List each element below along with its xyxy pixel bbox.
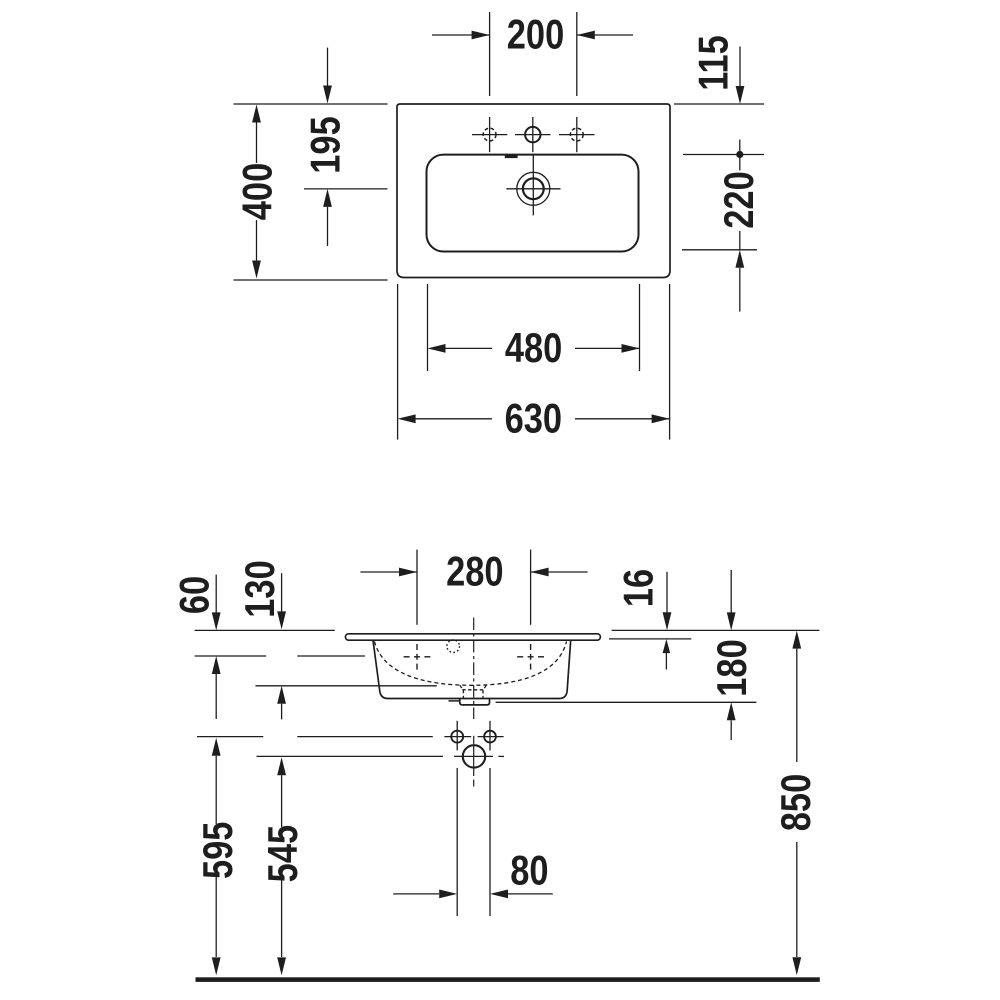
left bolt hole: [451, 731, 463, 743]
dim 200 left extension line: [489, 12, 491, 96]
trap reference line left: [257, 755, 444, 757]
drain recess hidden right: [483, 685, 486, 698]
drain boss: [460, 699, 490, 705]
drain crosshair h: [506, 188, 560, 190]
rim underside reference line right: [609, 638, 691, 640]
dim 115 arrowhead: [736, 86, 745, 104]
dim 220 arrowhead: [735, 250, 744, 268]
svg-text:595: 595: [195, 822, 242, 879]
dim 220 bottom reference line: [682, 249, 757, 251]
drain recess hidden left: [460, 685, 464, 698]
dim 60 bottom arrowhead: [212, 656, 221, 674]
dim 220 line lower stub: [739, 231, 741, 250]
centerline upper: [473, 618, 475, 720]
dim 200 right extension line: [576, 12, 578, 96]
dim 115 arrow line: [739, 47, 741, 87]
dim 630 right extension line: [669, 284, 671, 440]
dim 280 left arrow line: [360, 571, 417, 573]
dim 16 bottom arrowhead: [663, 639, 671, 653]
dim 180 bottom arrowhead: [727, 702, 736, 720]
faucet line reference left a: [195, 655, 267, 657]
rear edge extension line right: [674, 103, 764, 105]
dim 16 bottom arrow tail: [665, 653, 667, 670]
drain boss lip: [449, 700, 461, 702]
dim 545 line upper: [281, 775, 283, 827]
washbasin body (elevation): [373, 640, 571, 698]
svg-text:115: 115: [690, 35, 737, 91]
basin rear edge reference line right: [683, 154, 764, 156]
svg-text:130: 130: [237, 560, 284, 617]
right faucet hole (dashed): [570, 128, 583, 141]
svg-text:630: 630: [505, 395, 562, 442]
dim 480 left extension line: [427, 284, 429, 371]
dim 80 right arrow line: [508, 893, 553, 895]
dim 630 line left: [415, 418, 492, 420]
centerline dash lower: [473, 780, 475, 787]
rim top reference line left: [195, 629, 335, 631]
drain pipe right edge: [489, 768, 491, 916]
washbasin rim bar (elevation): [345, 634, 600, 640]
drain pipe left edge: [456, 768, 458, 916]
dim 400 line upper: [256, 121, 258, 163]
svg-text:400: 400: [235, 163, 282, 220]
left faucet hidden cross: [404, 656, 410, 658]
dim 180 top arrow line: [730, 570, 732, 613]
dim 850 line upper: [796, 649, 798, 762]
dim 545 top arrowhead: [277, 757, 286, 775]
dim 80 right arrowhead: [490, 890, 508, 899]
drain crosshair v: [532, 156, 534, 216]
dim 130 top arrow line: [281, 573, 283, 611]
dim 195 top arrowhead: [323, 86, 332, 104]
drain inner circle: [523, 178, 544, 199]
dim 180 top arrowhead: [727, 612, 736, 630]
dim 195 bottom arrow tail: [327, 207, 329, 246]
right faucet hole crosshair h: [559, 134, 595, 136]
svg-text:180: 180: [709, 639, 756, 696]
dim 130 bottom arrowhead: [277, 686, 286, 704]
svg-text:195: 195: [302, 116, 349, 173]
left faucet hole crosshair v: [489, 117, 491, 152]
dim chain dot at basin edge: [736, 151, 743, 158]
dim 480 right extension line: [639, 284, 641, 371]
rear edge extension line left: [234, 103, 388, 105]
dim 480 right arrowhead: [622, 344, 640, 353]
dim 480 left arrowhead: [428, 344, 446, 353]
dim 630 left extension line: [397, 284, 399, 440]
dim 545 bottom arrowhead: [277, 957, 286, 975]
dim 280 right extension line: [530, 550, 532, 625]
dim 130 top arrowhead: [277, 611, 286, 629]
trap crosshair right stub: [498, 755, 504, 757]
centerline through trap circle: [473, 746, 475, 776]
svg-text:60: 60: [171, 576, 218, 614]
dim chain dot stem: [739, 140, 741, 171]
dim 630 line right: [575, 418, 670, 420]
center faucet hole: [525, 127, 540, 142]
dim 630 right arrowhead: [652, 414, 670, 423]
dim 195 bottom reference line: [304, 188, 388, 190]
dim 195 bottom arrowhead: [323, 189, 332, 207]
dim 850 line lower: [796, 842, 798, 957]
basin depth reference line: [255, 685, 436, 687]
dim 200 left arrowhead: [472, 31, 490, 40]
dim 595 line upper: [215, 756, 217, 824]
faucet line reference left b: [297, 655, 365, 657]
svg-text:850: 850: [773, 774, 820, 831]
left faucet hole crosshair h: [472, 134, 507, 136]
basin interior hidden curve: [375, 642, 567, 686]
rim top reference line right: [612, 629, 820, 631]
svg-text:80: 80: [510, 847, 548, 894]
dim 16 top arrowhead: [663, 612, 672, 630]
center faucet hole crosshair v: [532, 117, 534, 152]
centerline dash: [473, 736, 475, 744]
dim 400 bottom arrowhead: [252, 261, 261, 279]
dim 60 bottom arrow tail: [215, 674, 217, 719]
bolt hole crosshair right stub: [478, 736, 504, 738]
svg-text:280: 280: [446, 548, 503, 595]
drain recess hidden bottom: [462, 689, 484, 691]
dim 280 right arrow line: [531, 571, 588, 573]
dim 280 right arrowhead: [531, 568, 549, 577]
dim 200 left arrow line: [432, 34, 490, 36]
dim 595 bottom arrowhead: [212, 957, 221, 975]
svg-text:220: 220: [716, 171, 763, 228]
dim 545 line lower: [281, 880, 283, 957]
dim 280 left arrowhead: [399, 568, 417, 577]
bolt hole reference line left a: [197, 736, 263, 738]
drain trap circle: [463, 745, 485, 767]
dim 80 left arrowhead: [439, 890, 457, 899]
svg-text:480: 480: [505, 325, 562, 372]
svg-text:545: 545: [260, 825, 307, 882]
dim 400 line lower: [256, 220, 258, 261]
dim 180 bottom arrow tail: [730, 720, 732, 740]
dim 60 top arrowhead: [212, 612, 221, 630]
center faucet hole crosshair h: [515, 134, 551, 136]
dim 480 line right: [575, 347, 640, 349]
overflow slot tick: [505, 154, 518, 158]
dim 850 bottom arrowhead: [792, 957, 801, 975]
dim 630 left arrowhead: [398, 414, 416, 423]
dim 595 top arrowhead: [212, 738, 221, 756]
dim 280 left extension line: [416, 550, 418, 625]
dim 400 top arrowhead: [252, 105, 261, 123]
dim 480 line left: [445, 347, 492, 349]
dim 850 top arrowhead: [792, 631, 801, 649]
bolt hole reference line left b: [297, 736, 433, 738]
front edge extension line left: [234, 279, 388, 281]
right bolt hole: [484, 731, 496, 743]
right bolt hole crosshair v: [489, 721, 491, 751]
inner basin bowl (plan): [427, 155, 639, 252]
right faucet hole crosshair v: [576, 117, 578, 152]
floor line: [196, 977, 820, 982]
left bolt hole crosshair v: [456, 721, 458, 751]
dim 80 left arrow line: [393, 893, 439, 895]
svg-text:16: 16: [616, 569, 663, 607]
trap crosshair: [454, 755, 493, 757]
svg-text:200: 200: [507, 11, 564, 58]
dim 200 right arrow line: [577, 34, 633, 36]
dim 595 line lower: [215, 877, 217, 957]
drain outer circle: [517, 172, 550, 205]
bolt hole crosshair left: [444, 736, 471, 738]
dim 60 top arrow line: [215, 575, 217, 613]
dim 195 top arrow line: [327, 48, 329, 86]
basin bottom reference line right: [496, 701, 757, 703]
washbasin outer rim (plan): [397, 104, 670, 278]
left faucet hole (dashed): [483, 128, 496, 141]
dim 130 bottom arrow tail: [281, 704, 283, 720]
dim 16 top arrow line: [666, 572, 668, 613]
dim 200 right arrowhead: [577, 31, 595, 40]
overflow hole (dotted): [447, 640, 460, 653]
dim 220 arrow tail: [739, 268, 741, 312]
